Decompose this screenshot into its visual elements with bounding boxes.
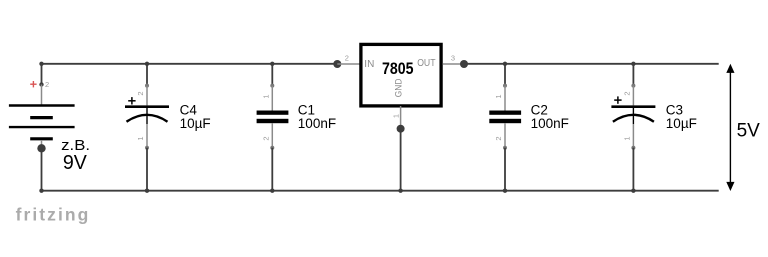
pin 2 IN (337, 63, 359, 65)
node battery bottom junction (37, 144, 45, 152)
capacitor C3 (electrolytic 10uF) (611, 62, 696, 193)
plus sign battery (30, 81, 36, 87)
svg-text:IN: IN (364, 59, 374, 70)
svg-text:2: 2 (345, 54, 349, 63)
wire battery top (41, 64, 43, 85)
pin 1 GND (400, 106, 402, 129)
C1 plate bottom (257, 119, 289, 123)
wire battery bottom (41, 148, 43, 190)
svg-text:1: 1 (392, 114, 401, 118)
svg-text:3: 3 (451, 54, 455, 63)
node C1 pin2 end (270, 146, 274, 150)
arrow head up (726, 64, 734, 73)
svg-text:1: 1 (262, 94, 271, 98)
battery BT1 (9, 62, 90, 193)
svg-text:10µF: 10µF (180, 116, 211, 131)
C2 plate top (489, 111, 521, 115)
battery plate short bottom (30, 137, 53, 140)
svg-text:2: 2 (622, 91, 631, 95)
node C2 top rail junction (503, 62, 507, 66)
pin 1 battery (41, 140, 43, 148)
C3 plate curved (613, 115, 654, 122)
pin 1 C2 (504, 86, 506, 111)
wire C3 top (632, 64, 634, 86)
C3 center link (632, 108, 634, 124)
wire C2 bottom (504, 148, 506, 191)
node OUT junction (460, 60, 468, 68)
arrow head down (726, 182, 734, 191)
node C3 pin1 end (631, 146, 635, 150)
svg-text:7805: 7805 (382, 59, 414, 78)
7805 body (361, 44, 441, 106)
wire bottom rail (42, 190, 719, 192)
node C1 top rail junction (270, 62, 274, 66)
wire C4 top (146, 64, 148, 86)
node C4 bottom rail junction (145, 189, 149, 193)
node C2 pin2 end (503, 146, 507, 150)
node C3 pin2 end (631, 84, 635, 88)
node GND bendpoint (397, 125, 405, 133)
pin 2 C4 (146, 86, 148, 106)
wire C4 bottom (146, 148, 148, 191)
node C4 top rail junction (145, 62, 149, 66)
wire GND down (400, 129, 402, 191)
pin 1 C1 (271, 86, 273, 111)
node C1 pin1 end (270, 84, 274, 88)
pin 1 C3 (632, 124, 634, 148)
annotation 5V measurement arrow (726, 64, 760, 191)
C1 plate top (257, 111, 289, 115)
voltage regulator U1 7805 (333, 44, 468, 193)
svg-text:5V: 5V (737, 121, 761, 142)
wire C3 bottom (632, 148, 634, 191)
battery plate long bottom (9, 126, 75, 128)
svg-text:1: 1 (136, 136, 145, 140)
svg-text:2: 2 (136, 91, 145, 95)
C4 center link (146, 108, 148, 124)
node C3 bottom rail junction (631, 189, 635, 193)
plus sign C3 (614, 96, 621, 103)
C4 plate curved (127, 115, 168, 122)
node battery bottom corner (39, 189, 43, 193)
svg-text:100nF: 100nF (298, 116, 336, 131)
pin 1 C4 (146, 124, 148, 148)
C3 plate straight (611, 105, 655, 108)
node C3 top rail junction (631, 62, 635, 66)
battery plate short (30, 116, 53, 119)
pin 2 C2 (504, 123, 506, 148)
plus sign C4 (128, 97, 135, 104)
battery plate long top (9, 104, 75, 106)
node C4 pin2 end (145, 84, 149, 88)
svg-text:fritzing: fritzing (16, 205, 91, 225)
arrow shaft (729, 70, 731, 185)
C4 plate straight (125, 105, 169, 108)
node battery pin2 end (39, 82, 43, 86)
capacitor C1 (ceramic 100nF) (257, 62, 336, 193)
pin 3 OUT (443, 63, 465, 65)
wire C1 top (271, 64, 273, 86)
wire C2 top (504, 64, 506, 86)
node GND bottom rail junction (398, 189, 402, 193)
capacitor C2 (ceramic 100nF) (489, 62, 569, 193)
svg-text:2: 2 (45, 80, 49, 89)
svg-text:100nF: 100nF (531, 116, 569, 131)
wire top rail left (battery to 7805 IN) (42, 63, 338, 65)
svg-text:1: 1 (494, 94, 503, 98)
pin 2 C1 (271, 123, 273, 148)
capacitor C4 (electrolytic 10uF) (125, 62, 211, 193)
svg-text:1: 1 (622, 136, 631, 140)
node IN junction (333, 60, 341, 68)
svg-text:OUT: OUT (417, 58, 435, 69)
wire top rail right (7805 OUT to right end) (464, 63, 719, 65)
wire C1 bottom (271, 148, 273, 191)
svg-text:2: 2 (494, 136, 503, 140)
pin 2 C3 (632, 86, 634, 106)
node C2 pin1 end (503, 84, 507, 88)
node C4 pin1 end (145, 146, 149, 150)
node C2 bottom rail junction (503, 189, 507, 193)
pin 2 battery (41, 85, 43, 105)
svg-text:10µF: 10µF (666, 116, 697, 131)
C2 plate bottom (489, 119, 521, 123)
node C1 bottom rail junction (270, 189, 274, 193)
svg-text:2: 2 (262, 136, 271, 140)
svg-text:GND: GND (394, 78, 405, 97)
svg-text:9V: 9V (63, 152, 88, 174)
node battery top corner (39, 62, 43, 66)
